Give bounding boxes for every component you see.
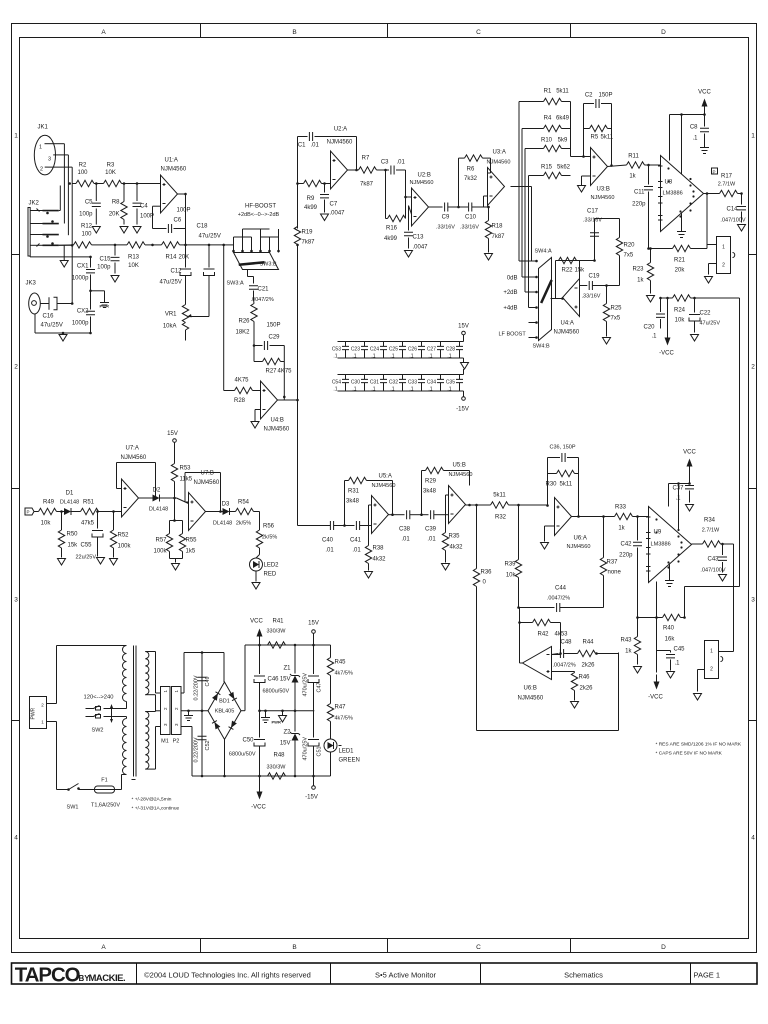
svg-text:R25: R25 <box>611 306 623 312</box>
svg-text:C36, 150P: C36, 150P <box>550 445 576 451</box>
wire psu-bank <box>181 651 224 777</box>
copyright text <box>144 971 311 980</box>
chassis ground psu <box>184 710 193 721</box>
svg-text:MACKIE.: MACKIE. <box>89 973 126 984</box>
svg-text:U7:A: U7:A <box>126 446 139 452</box>
resistor R28 <box>234 378 261 405</box>
svg-text:C: C <box>476 944 481 951</box>
svg-text:.1: .1 <box>333 387 337 393</box>
svg-text:4k32: 4k32 <box>450 545 464 551</box>
ground <box>485 254 493 261</box>
capacitor C2 <box>584 93 613 109</box>
svg-text:+2dB<--0-->-2dB: +2dB<--0-->-2dB <box>238 212 280 218</box>
svg-text:R12: R12 <box>81 224 93 230</box>
svg-text:F1: F1 <box>101 778 107 784</box>
svg-text:* CAPS ARE 50V IF NO MARK: * CAPS ARE 50V IF NO MARK <box>656 751 723 757</box>
svg-text:100k: 100k <box>118 544 132 550</box>
svg-text:R46: R46 <box>579 675 591 681</box>
capacitor C26 <box>408 342 425 359</box>
svg-text:.0047: .0047 <box>413 245 429 251</box>
svg-text:4k99: 4k99 <box>384 236 398 242</box>
svg-text:C32: C32 <box>389 380 398 386</box>
svg-text:.01: .01 <box>325 548 334 554</box>
capacitor C29 <box>254 323 284 351</box>
op-amp U5:A <box>372 474 396 534</box>
ground <box>719 575 727 582</box>
svg-text:VCC: VCC <box>250 619 263 625</box>
resistor R32 <box>491 493 548 521</box>
resistor R42 <box>518 619 568 654</box>
svg-text:5k11: 5k11 <box>560 482 573 488</box>
wire u7a-out <box>139 497 153 499</box>
capacitor C6 <box>153 208 191 234</box>
svg-text:10K: 10K <box>128 263 139 269</box>
wire <box>186 229 226 247</box>
svg-text:R1: R1 <box>544 89 552 95</box>
svg-text:C43: C43 <box>707 557 719 563</box>
switch SW4 <box>533 249 563 350</box>
node P input <box>25 508 34 515</box>
capacitor C30 <box>351 375 368 392</box>
svg-text:6k49: 6k49 <box>556 116 570 122</box>
svg-text:.1: .1 <box>352 387 356 393</box>
svg-text:C42: C42 <box>620 542 632 548</box>
op-amp U6:A <box>555 498 591 551</box>
svg-text:C50: C50 <box>242 738 254 744</box>
svg-text:NJM4560: NJM4560 <box>591 195 615 201</box>
svg-text:15V: 15V <box>280 677 291 683</box>
svg-text:NJM4560: NJM4560 <box>554 330 580 336</box>
svg-text:C14: C14 <box>726 207 738 213</box>
svg-text:D3: D3 <box>222 502 230 508</box>
svg-text:1: 1 <box>39 145 42 151</box>
svg-text:47k5: 47k5 <box>81 521 95 527</box>
wire <box>59 186 72 246</box>
svg-text:C44: C44 <box>555 586 567 592</box>
wire <box>175 498 189 521</box>
svg-text:-15V: -15V <box>456 407 469 413</box>
ground <box>571 702 579 709</box>
capacitor C21 <box>249 286 274 303</box>
svg-text:R32: R32 <box>495 515 507 521</box>
svg-text:7x5: 7x5 <box>611 316 621 322</box>
capacitor C35 <box>446 375 463 392</box>
svg-text:R48: R48 <box>274 753 286 759</box>
svg-text:-VCC: -VCC <box>251 805 266 811</box>
column label A <box>101 29 106 951</box>
label +2dB <box>503 290 517 296</box>
svg-text:DL4148: DL4148 <box>149 507 168 513</box>
svg-text:U3:B: U3:B <box>597 187 610 193</box>
svg-text:47u/25V: 47u/25V <box>41 323 63 329</box>
sheet name <box>564 971 603 980</box>
ground <box>252 571 260 589</box>
capacitor C19 <box>580 274 620 300</box>
label .1 values <box>333 354 451 393</box>
capacitor C51 <box>303 711 323 776</box>
power amp U9 LM3886 <box>646 507 692 583</box>
svg-text:150P: 150P <box>599 93 613 99</box>
svg-text:16k: 16k <box>665 637 676 643</box>
ground <box>691 335 699 342</box>
resistor R56 <box>256 512 277 555</box>
svg-text:KBL405: KBL405 <box>215 709 235 715</box>
svg-text:3: 3 <box>751 597 755 604</box>
svg-text:R51: R51 <box>83 500 95 506</box>
capacitor C36 <box>548 445 579 463</box>
svg-text:.1: .1 <box>371 387 375 393</box>
svg-text:11k5: 11k5 <box>180 477 193 483</box>
wire u4b-out <box>278 397 299 401</box>
resistor R45 <box>327 645 353 691</box>
wire u6a-out <box>572 515 615 518</box>
resistor R26 <box>235 300 257 362</box>
wire u5b-out <box>466 504 491 507</box>
svg-text:15V: 15V <box>167 431 178 437</box>
svg-text:NJM4560: NJM4560 <box>567 544 591 550</box>
wire <box>115 775 127 790</box>
svg-text:R36: R36 <box>481 570 493 576</box>
svg-text:C33: C33 <box>408 380 417 386</box>
svg-text:.1: .1 <box>428 354 432 360</box>
svg-text:R4: R4 <box>544 116 552 122</box>
capacitor C8 <box>690 115 709 148</box>
svg-text:2k26: 2k26 <box>582 663 596 669</box>
wire <box>580 219 620 261</box>
svg-text:D: D <box>661 944 666 951</box>
resistor R57 <box>153 519 175 558</box>
ground u9 <box>665 565 674 587</box>
svg-text:.1: .1 <box>447 354 451 360</box>
wire jk2-bottom <box>30 255 91 258</box>
svg-text:.1: .1 <box>675 496 681 502</box>
capacitor C39 <box>419 510 449 542</box>
resistor R16 <box>384 170 407 242</box>
svg-text:100p: 100p <box>97 265 111 271</box>
svg-text:R44: R44 <box>583 640 595 646</box>
resistor R21 <box>647 245 707 274</box>
ground <box>694 694 702 701</box>
svg-text:1: 1 <box>722 245 725 251</box>
capacitor C5 <box>79 184 101 225</box>
capacitor C50 <box>229 711 265 776</box>
zener Z2 <box>280 711 300 776</box>
ground <box>321 214 329 221</box>
wire u1a-fb <box>151 206 160 246</box>
column label D <box>661 29 666 951</box>
wire <box>248 270 254 284</box>
svg-text:+2dB: +2dB <box>503 290 517 296</box>
resistor R3 <box>95 163 161 187</box>
ground <box>110 559 118 566</box>
resistor R13 <box>106 242 153 269</box>
svg-text:C39: C39 <box>425 527 437 533</box>
connector speaker out 2 <box>698 641 734 692</box>
resistor R18 <box>484 206 506 253</box>
op-amp U1:A <box>161 158 187 214</box>
svg-text:C1: C1 <box>298 143 306 149</box>
ground <box>172 564 180 571</box>
svg-text:U8: U8 <box>665 180 673 186</box>
label LF BOOST <box>499 332 527 338</box>
resistor R33 <box>615 505 649 532</box>
svg-text:100: 100 <box>77 170 88 176</box>
resistor R15 <box>529 165 571 179</box>
capacitor CX2 <box>72 291 95 335</box>
ground <box>405 251 413 258</box>
svg-text:NJM4560: NJM4560 <box>121 455 147 461</box>
svg-text:.1: .1 <box>675 661 681 667</box>
capacitor C24 <box>370 342 387 359</box>
svg-text:C40: C40 <box>322 538 334 544</box>
svg-text:C17: C17 <box>587 209 599 215</box>
wire jk3-gnd-row <box>35 314 91 335</box>
svg-text:DL4148: DL4148 <box>213 521 232 527</box>
svg-text:VCC: VCC <box>698 90 711 96</box>
op-amp U5:B <box>449 463 473 524</box>
wire <box>520 608 523 664</box>
capacitor C45 <box>657 647 686 679</box>
svg-text:10kA: 10kA <box>163 324 177 330</box>
svg-text:.1: .1 <box>692 136 698 142</box>
svg-text:C19: C19 <box>589 274 601 280</box>
svg-text:R43: R43 <box>620 638 632 644</box>
capacitor C10 <box>457 203 483 231</box>
svg-text:4k99: 4k99 <box>304 205 318 211</box>
svg-text:NJM4560: NJM4560 <box>487 160 511 166</box>
svg-text:5k9: 5k9 <box>558 138 568 144</box>
svg-text:15k: 15k <box>68 543 79 549</box>
svg-text:1000p: 1000p <box>72 276 89 282</box>
svg-text:P2: P2 <box>173 739 180 745</box>
svg-text:7x5: 7x5 <box>624 253 634 259</box>
resistor R41 <box>267 619 287 649</box>
resistor R50 <box>58 512 78 558</box>
TAPCO by MACKIE logo <box>15 965 125 987</box>
svg-text:R55: R55 <box>186 538 198 544</box>
svg-text:3k48: 3k48 <box>423 489 437 495</box>
resistor R9 <box>298 180 331 211</box>
svg-text:4: 4 <box>14 835 18 842</box>
ground <box>120 227 128 234</box>
ground <box>634 667 642 674</box>
svg-text:1k: 1k <box>629 174 636 180</box>
svg-text:R29: R29 <box>425 479 437 485</box>
svg-text:HF-BOOST: HF-BOOST <box>245 204 276 210</box>
fuse F1 <box>91 778 120 809</box>
ground <box>59 333 67 341</box>
svg-text:R54: R54 <box>238 500 250 506</box>
svg-text:DL4148: DL4148 <box>60 500 79 506</box>
resistor R53 <box>171 462 192 500</box>
ground <box>700 148 709 154</box>
svg-text:2: 2 <box>163 707 168 710</box>
capacitor C48 <box>552 640 578 669</box>
svg-text:VCC: VCC <box>683 450 696 456</box>
svg-text:.0047/2%: .0047/2% <box>547 596 570 602</box>
capacitor C13 <box>404 206 428 251</box>
note psu1 <box>132 797 172 803</box>
row label 2 <box>14 364 755 371</box>
resistor R51 <box>81 500 122 527</box>
wire <box>655 582 658 673</box>
svg-text:.01: .01 <box>427 537 436 543</box>
svg-text:C9: C9 <box>442 215 450 221</box>
svg-text:5k11: 5k11 <box>556 89 569 95</box>
svg-text:47u/25V: 47u/25V <box>700 321 721 327</box>
column label C <box>476 29 481 951</box>
svg-text:C24: C24 <box>370 347 379 353</box>
svg-text:C52: C52 <box>205 740 211 750</box>
svg-text:R17: R17 <box>721 174 733 180</box>
svg-text:C34: C34 <box>427 380 436 386</box>
svg-text:20k: 20k <box>675 268 686 274</box>
svg-text:C11: C11 <box>634 190 645 196</box>
svg-text:R35: R35 <box>449 534 461 540</box>
wire u5a-out <box>389 513 405 516</box>
svg-text:C26: C26 <box>408 347 417 353</box>
svg-text:R11: R11 <box>628 154 639 160</box>
svg-text:1: 1 <box>174 690 179 693</box>
svg-text:NJM4560: NJM4560 <box>327 140 353 146</box>
svg-text:TAPCO: TAPCO <box>15 965 80 987</box>
svg-text:C18: C18 <box>196 224 208 230</box>
svg-text:SW4:B: SW4:B <box>533 344 550 350</box>
capacitor C4 <box>133 184 155 225</box>
resistor R49 <box>34 500 62 527</box>
svg-text:U6:B: U6:B <box>524 686 537 692</box>
svg-text:VR1: VR1 <box>165 312 177 318</box>
op-amp U3:A <box>487 150 511 206</box>
svg-text:120<-->240: 120<-->240 <box>84 695 114 701</box>
resistor R19 <box>294 184 315 246</box>
capacitor C28 <box>446 342 463 359</box>
svg-text:C48: C48 <box>561 640 573 646</box>
svg-text:R9: R9 <box>307 196 315 202</box>
wire u2a-in <box>325 177 331 193</box>
svg-text:SW1: SW1 <box>67 805 79 811</box>
wire main-vert-rail <box>296 244 299 526</box>
svg-text:.1: .1 <box>371 354 375 360</box>
svg-text:U7:B: U7:B <box>201 471 214 477</box>
svg-text:LED2: LED2 <box>264 563 280 569</box>
power 15V u7 <box>167 431 178 462</box>
resistor R23 <box>632 249 653 294</box>
resistor R8 <box>109 184 127 225</box>
wire <box>89 290 104 293</box>
label HF-BOOST <box>238 204 280 219</box>
svg-text:18K2: 18K2 <box>235 330 250 336</box>
svg-text:LED1: LED1 <box>339 749 355 755</box>
svg-text:6800u/50V: 6800u/50V <box>229 752 256 758</box>
ground <box>111 276 119 283</box>
svg-text:C47: C47 <box>317 682 323 692</box>
svg-text:C2: C2 <box>585 93 593 99</box>
svg-text:2: 2 <box>751 364 755 371</box>
svg-text:2: 2 <box>14 364 18 371</box>
capacitor C55 <box>76 512 104 561</box>
resistor R22 <box>556 257 586 288</box>
svg-text:0.22/200V: 0.22/200V <box>194 675 200 700</box>
svg-text:SW4:A: SW4:A <box>535 249 552 255</box>
svg-text:U9: U9 <box>654 530 662 536</box>
op-amp U2:B <box>410 173 434 227</box>
svg-text:330/3W: 330/3W <box>267 629 287 635</box>
resistor R7 <box>359 156 386 188</box>
power -15V psu <box>305 776 318 801</box>
wire <box>192 644 331 778</box>
power -VCC psu <box>251 776 266 811</box>
ground <box>58 559 66 566</box>
svg-text:R40: R40 <box>663 626 675 632</box>
bridge rectifier BD1 <box>208 682 241 739</box>
capacitor C18 <box>196 224 220 276</box>
svg-text:R15: R15 <box>541 165 553 171</box>
svg-text:4k32: 4k32 <box>373 557 387 563</box>
wire u9-out <box>692 543 703 545</box>
op-amp U7:B <box>189 471 220 531</box>
ground mid <box>279 710 287 723</box>
svg-text:R39: R39 <box>504 562 516 568</box>
svg-text:©2004 LOUD Technologies Inc. A: ©2004 LOUD Technologies Inc. All rights … <box>144 971 311 980</box>
svg-text:.1: .1 <box>409 354 413 360</box>
svg-text:C22: C22 <box>700 311 712 317</box>
svg-text:R34: R34 <box>704 518 716 524</box>
svg-text:1: 1 <box>41 720 44 725</box>
svg-text:U4:B: U4:B <box>271 418 284 424</box>
svg-text:+4dB: +4dB <box>503 306 517 312</box>
op-amp U6:B <box>518 647 552 702</box>
capacitor C7 <box>320 182 345 216</box>
svg-text:CX2: CX2 <box>77 309 89 315</box>
svg-text:R6: R6 <box>467 167 475 173</box>
capacitor C14 <box>720 194 746 224</box>
ground <box>705 277 713 284</box>
wire <box>298 137 358 184</box>
ground <box>97 558 105 565</box>
svg-text:Schematics: Schematics <box>564 971 603 980</box>
wire fb-u3b <box>571 102 613 167</box>
wire <box>406 170 412 197</box>
svg-text:2: 2 <box>41 703 44 708</box>
svg-text:U3:A: U3:A <box>493 150 506 156</box>
capacitor C9 <box>436 203 458 231</box>
svg-text:1k5: 1k5 <box>186 549 196 555</box>
wire <box>71 184 74 305</box>
op-amp U7:A <box>121 446 147 518</box>
wire u2a-out <box>348 169 359 171</box>
svg-text:C3: C3 <box>381 160 389 166</box>
capacitor C12 <box>160 245 192 305</box>
resistor R12 <box>59 224 106 249</box>
wire u6a-fb <box>546 458 580 518</box>
svg-text:10k: 10k <box>675 318 686 324</box>
svg-text:PWR: PWR <box>272 720 281 725</box>
svg-text:C45: C45 <box>674 647 686 653</box>
capacitor C25 <box>389 342 406 359</box>
resistor R31 <box>345 477 393 525</box>
capacitor C44 <box>517 586 603 613</box>
svg-text:R19: R19 <box>302 230 314 236</box>
transformer T1 <box>123 646 149 780</box>
svg-text:C38: C38 <box>399 527 411 533</box>
svg-text:20K: 20K <box>109 212 120 218</box>
svg-text:CX1: CX1 <box>77 264 89 270</box>
svg-text:NJM4560: NJM4560 <box>518 696 544 702</box>
svg-text:R27: R27 <box>266 369 278 375</box>
svg-text:.047/100V: .047/100V <box>720 218 745 224</box>
LED LED2 <box>250 555 280 578</box>
